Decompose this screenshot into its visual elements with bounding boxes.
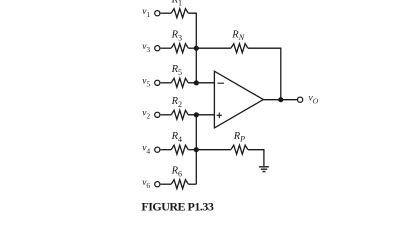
- wire output: [263, 99, 297, 101]
- ground: [259, 167, 269, 172]
- svg-text:R2: R2: [171, 96, 182, 109]
- resistor R3: [171, 44, 188, 53]
- svg-text:v6: v6: [142, 178, 150, 190]
- wire v6 lead: [161, 183, 172, 185]
- wire R6 to corner of plus node line: [188, 183, 196, 185]
- resistor R6: [171, 180, 188, 189]
- op-amp minus sign: [218, 82, 225, 84]
- svg-text:R3: R3: [171, 29, 182, 42]
- terminal v5: [155, 80, 160, 85]
- resistor R4: [171, 145, 188, 154]
- svg-text:v5: v5: [142, 76, 150, 88]
- svg-text:v1: v1: [142, 7, 150, 19]
- svg-text:R4: R4: [171, 131, 182, 144]
- wire RN to feedback corner down to output node: [248, 48, 281, 99]
- node plus-v2 junction: [194, 112, 199, 117]
- svg-text:v3: v3: [142, 42, 150, 54]
- terminal v6: [155, 182, 160, 187]
- resistor R2: [171, 110, 188, 119]
- wire v4 lead: [161, 149, 172, 151]
- wire v5 lead: [161, 82, 172, 84]
- terminal v3: [155, 46, 160, 51]
- node plus-v4 junction: [194, 147, 199, 152]
- wire v2 lead: [161, 114, 172, 116]
- wire plus node vertical: [195, 115, 197, 184]
- svg-text:v2: v2: [142, 108, 150, 120]
- wire R5 to node and into op-amp minus input: [188, 82, 214, 84]
- terminal v4: [155, 147, 160, 152]
- svg-text:R5: R5: [171, 64, 182, 77]
- terminal vO: [298, 97, 303, 102]
- svg-text:v4: v4: [142, 143, 150, 155]
- wire v1 lead: [161, 12, 172, 14]
- svg-text:FIGURE P1.33: FIGURE P1.33: [141, 200, 214, 212]
- wire R1 to corner, down to minus node: [188, 13, 196, 83]
- node output junction: [278, 97, 283, 102]
- resistor RP: [231, 145, 248, 154]
- terminal v2: [155, 112, 160, 117]
- svg-text:R6: R6: [171, 165, 182, 178]
- svg-text:vO: vO: [309, 93, 319, 105]
- wire RP to ground corner: [248, 150, 264, 167]
- svg-text:RN: RN: [231, 29, 244, 42]
- wire v3 lead: [161, 47, 172, 49]
- op-amp U1: [214, 71, 263, 128]
- wire R2 to node and into op-amp plus input: [188, 114, 214, 116]
- node minus-v5 junction: [194, 80, 199, 85]
- wire RN left lead from minus node: [196, 47, 231, 49]
- resistor R1: [171, 9, 188, 18]
- terminal v1: [155, 11, 160, 16]
- svg-text:R1: R1: [171, 0, 182, 8]
- node minus-v3 junction: [194, 46, 199, 51]
- wire RP left lead from plus node: [196, 149, 231, 151]
- svg-text:RP: RP: [233, 131, 245, 144]
- resistor RN: [231, 44, 248, 53]
- wire R4 to node: [188, 149, 196, 151]
- op-amp plus sign: [217, 113, 222, 119]
- resistor R5: [171, 78, 188, 87]
- wire R3 to node: [188, 47, 196, 49]
